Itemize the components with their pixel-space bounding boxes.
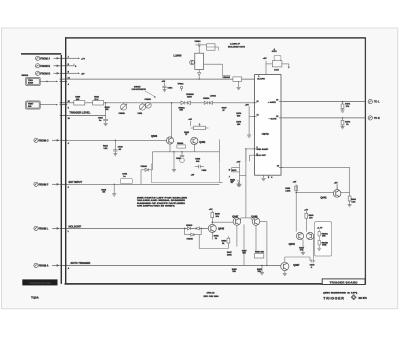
svg-text:VALUES AND SERIAL NUMBER: VALUES AND SERIAL NUMBER (137, 199, 186, 202)
svg-text:CR660: CR660 (145, 99, 152, 101)
svg-text:Q647: Q647 (232, 215, 239, 218)
svg-text:SW610: SW610 (22, 75, 29, 77)
svg-text:TRIGGER: TRIGGER (323, 296, 344, 300)
transistor Q661 (191, 137, 198, 144)
svg-text:OR DEPICTED IN GREY.: OR DEPICTED IN GREY. (137, 205, 176, 207)
svg-text:FROM C: FROM C (39, 139, 49, 142)
svg-text:10: 10 (277, 166, 279, 168)
svg-text:EXT INPUT: EXT INPUT (69, 180, 83, 184)
svg-text:CR643: CR643 (186, 224, 193, 227)
svg-text:8: 8 (268, 177, 269, 179)
connector FROM B (36, 71, 59, 75)
svg-text:FROM L: FROM L (39, 227, 49, 230)
stray capacitance arrow (145, 91, 155, 97)
dual transistor Q645 a (296, 233, 303, 240)
diode pair CR664 CR665 (204, 101, 212, 104)
trigger level short wire (67, 114, 106, 116)
svg-text:16: 16 (68, 118, 70, 120)
R671 resistor drop (340, 102, 344, 113)
svg-text:-8V: -8V (81, 73, 85, 75)
svg-text:CR1666: CR1666 (223, 77, 231, 79)
transistor Q1660 (190, 60, 195, 65)
svg-text:Q687: Q687 (293, 264, 300, 267)
svg-text:+9V: +9V (245, 105, 249, 107)
TP664 test point (180, 86, 182, 91)
C665 cap horizontal (195, 165, 204, 169)
svg-text:AUTO TRIGGER: AUTO TRIGGER (70, 261, 90, 265)
K1660 inner tick (207, 46, 215, 48)
svg-text:TRIGGER BOARD: TRIGGER BOARD (330, 281, 359, 285)
svg-text:100K: 100K (227, 255, 232, 257)
ground left of C666 (172, 152, 176, 172)
board edge bus line inner (60, 55, 62, 284)
Q687 collector up (284, 257, 286, 262)
svg-text:+7V: +7V (81, 58, 85, 60)
connector FROM A (34, 263, 59, 267)
svg-text:FROM B: FROM B (40, 72, 50, 75)
resistor R661 (93, 97, 104, 106)
attenuator wire y103 (67, 102, 255, 104)
svg-text:Q645: Q645 (289, 243, 296, 246)
wire Q646 collector to Q647 base (212, 221, 233, 223)
transistor Q647 (233, 218, 241, 226)
svg-text:2: 2 (258, 76, 259, 78)
svg-text:L660A: L660A (210, 94, 217, 97)
svg-text:INCLUDES CKTS: INCLUDES CKTS (228, 47, 245, 49)
Q645 ground (301, 240, 305, 255)
grey box L672 (272, 55, 282, 67)
svg-text:TO L: TO L (374, 101, 380, 104)
holdoff wire (67, 227, 208, 229)
svg-text:1.96k: 1.96k (285, 190, 291, 192)
R662 resistor to ground (260, 265, 264, 274)
R658 box (254, 254, 263, 258)
R669 pot (191, 121, 209, 130)
diode pair CR662 CR663 (181, 101, 190, 105)
schematic frame right border (364, 38, 366, 285)
svg-text:SLO OFF: SLO OFF (256, 155, 266, 157)
reference box SW615 (26, 77, 58, 85)
transistor Q642 (333, 184, 341, 197)
ext input wire (67, 183, 219, 185)
wire slope line y79 (67, 78, 255, 80)
svg-text:L1660: L1660 (174, 54, 182, 58)
svg-text:5: 5 (68, 108, 69, 110)
svg-text:11: 11 (257, 101, 259, 103)
svg-text:RANGES OF PARTS OUTLINED: RANGES OF PARTS OUTLINED (137, 202, 186, 205)
relay right wire (204, 64, 231, 76)
U670 left pin circuit R674 (247, 106, 255, 137)
svg-text:R668A: R668A (177, 142, 184, 145)
TD box sides (152, 161, 220, 183)
svg-text:MAIN: MAIN (28, 82, 34, 85)
svg-text:CAPACITANCE: CAPACITANCE (132, 88, 147, 91)
R682 vertical net (295, 185, 298, 232)
svg-text:Q636: Q636 (151, 135, 158, 138)
svg-text:TRIGGER BOARD: TRIGGER BOARD (29, 281, 51, 285)
svg-text:FROM A: FROM A (39, 264, 49, 267)
resistor R675 chain (232, 163, 246, 186)
svg-text:+ GATE: + GATE (268, 101, 276, 104)
tek diamond logo (351, 295, 356, 300)
svg-text:TQ6A: TQ6A (31, 295, 40, 299)
bypass loop with CR645 (185, 228, 202, 236)
-GATE wire (283, 117, 365, 119)
junction dot ext wire (114, 184, 115, 185)
svg-text:9: 9 (271, 177, 272, 179)
svg-text:15: 15 (276, 116, 278, 118)
+GATE wire (283, 101, 365, 103)
grey box R648 (315, 222, 332, 256)
connector FROM J (36, 56, 59, 60)
connector FROM C (34, 138, 59, 142)
R64A label below Q646 (211, 232, 213, 239)
vertical from attenuator to Q636 (171, 103, 173, 137)
parts list note (137, 197, 188, 208)
supply stub mid (67, 64, 74, 66)
svg-text:C660B: C660B (119, 113, 126, 115)
diode CR660 circle (145, 102, 151, 108)
svg-text:R675: R675 (232, 170, 237, 172)
transistor Q687 (281, 262, 289, 270)
svg-text:Q648: Q648 (251, 215, 258, 218)
U670 internal labels (256, 79, 276, 158)
diode CR1660 on drop (198, 73, 201, 76)
U670 lower-left pin wires (246, 149, 255, 161)
collector feed vertical x246 (241, 149, 252, 220)
trimmer cap C661 (139, 103, 146, 110)
connector FROM E (36, 64, 59, 68)
capacitor C1664 (195, 43, 203, 46)
left connector labels (39, 57, 51, 267)
R648A resistor (318, 230, 320, 239)
Q642 base wire (296, 192, 333, 194)
svg-text:+9V: +9V (263, 58, 267, 60)
svg-text:TP664: TP664 (178, 82, 185, 85)
transistor Q646 (208, 224, 216, 232)
auto trigger wire (67, 264, 281, 266)
U670 IC box (255, 75, 281, 176)
pin tick right of box (219, 182, 222, 184)
R1670 ground drop (237, 81, 241, 89)
svg-text:(SN B250000 & UP): (SN B250000 & UP) (323, 292, 357, 294)
transistor Q636 (166, 137, 173, 144)
svg-text:1M: 1M (102, 192, 105, 194)
svg-text:FROM F: FROM F (39, 183, 49, 186)
U670 bottom pin stubs (261, 175, 268, 180)
schematic frame top border (65, 37, 366, 39)
Q645 output to C640 (285, 236, 316, 263)
trimmer cap C660B (121, 103, 128, 110)
svg-text:+1.7V: +1.7V (317, 228, 323, 230)
svg-text:R658 30K: R658 30K (255, 252, 265, 254)
left input connectors group (34, 56, 59, 267)
svg-text:16: 16 (276, 100, 278, 102)
svg-text:SEE PARTS LIST FOR EARLIER: SEE PARTS LIST FOR EARLIER (137, 197, 188, 200)
svg-text:A-1000 uF: A-1000 uF (230, 43, 241, 46)
bus pin ticks (60, 58, 68, 265)
schematic frame bottom border (65, 283, 366, 285)
heavy supply stub wire top-left (21, 53, 61, 55)
svg-text:GND SAMP: GND SAMP (256, 148, 268, 151)
diode CR640 branch (141, 152, 153, 185)
svg-text:Q646: Q646 (218, 228, 225, 231)
wire relay top to cap (198, 45, 200, 53)
supply stub -8V (67, 72, 80, 74)
svg-text:Q642: Q642 (320, 197, 327, 200)
svg-text:CR640: CR640 (141, 165, 148, 168)
connector FROM F (34, 182, 59, 186)
U670 pin ticks (253, 102, 283, 156)
collector vertical x219 (218, 139, 220, 161)
wire L672 to right vertical (266, 64, 290, 69)
svg-text:TRIGGER LEVEL: TRIGGER LEVEL (69, 111, 90, 115)
board edge bus line outer (65, 38, 67, 284)
R684 resistor glyph (236, 181, 240, 186)
reference box VERT SIG (26, 101, 58, 109)
svg-text:Q661: Q661 (199, 141, 206, 144)
wire U670 pin10 to R644 (279, 167, 350, 196)
svg-text:FROM E: FROM E (40, 65, 50, 68)
trig level long wire y140 (67, 139, 166, 141)
svg-text:NO 576: NO 576 (359, 297, 368, 300)
R643 resistor (305, 211, 308, 232)
emitter join wire y152 (153, 144, 220, 152)
C641 grey box on ext wire (121, 179, 133, 184)
relay L1660 coil box (195, 53, 204, 69)
R668A box on wire (177, 145, 186, 148)
box K1660 (207, 44, 215, 50)
svg-text:TO K: TO K (374, 117, 380, 120)
R640 to ground (112, 184, 116, 196)
svg-text:FROM J: FROM J (40, 57, 50, 60)
relay drop wire to y79 (198, 69, 200, 79)
connector FROM L (34, 226, 59, 230)
supply stub +7V (67, 57, 80, 59)
svg-text:REV JUN 1984: REV JUN 1984 (204, 295, 220, 298)
bus pin numbers (68, 57, 71, 271)
+5V cap C664 (162, 83, 166, 92)
capacitor C662 drop (103, 103, 108, 126)
svg-text:CR645: CR645 (187, 238, 194, 241)
svg-text:SIG: SIG (28, 106, 32, 108)
svg-text:HOLDOFF: HOLDOFF (69, 224, 82, 228)
Q687 emitter ground (283, 271, 287, 276)
inverted label PARTIAL TRIGGER BOARD bottom-left (22, 279, 57, 285)
transistor Q648 (252, 218, 260, 226)
svg-text:4750-15: 4750-15 (207, 292, 216, 295)
connector TO L (368, 100, 372, 104)
resistor R1670 on y79 (233, 77, 242, 81)
svg-text:+9V: +9V (236, 161, 240, 163)
R646 resistor (211, 211, 214, 225)
svg-text:5: 5 (257, 147, 258, 149)
capacitor C643 drop (113, 140, 117, 156)
svg-text:SLOPE: SLOPE (257, 79, 265, 81)
U670 top pin wire to +9V (265, 61, 267, 75)
connector TO K (368, 116, 372, 120)
Q647 Q648 emitter drops (237, 222, 267, 266)
dual transistor Q645 b (307, 233, 314, 240)
R672 resistor drop (340, 118, 344, 129)
svg-text:U670: U670 (262, 132, 269, 136)
U670 pin numbers (257, 76, 280, 167)
C666 electrolytic (180, 152, 185, 163)
wire cap to K1660 (203, 45, 219, 51)
R648B resistor (317, 238, 321, 250)
diodes CR643 CR644 on holdoff (187, 227, 199, 230)
resistor R660 (74, 97, 85, 106)
Q642 emitter resistor R644 (341, 193, 352, 207)
junction dot on y79 at relay drop (199, 78, 200, 79)
svg-text:C1664: C1664 (195, 40, 202, 43)
R650 feedback path (199, 235, 230, 249)
title block box TRIGGER BOARD (322, 279, 365, 285)
